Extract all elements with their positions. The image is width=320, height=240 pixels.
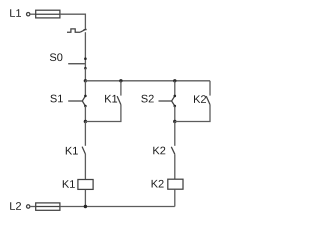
wire [30, 206, 36, 208]
label S2 [141, 95, 153, 103]
node [173, 79, 176, 82]
pushbutton S2 (make contact) [159, 95, 177, 108]
label L1 [10, 9, 21, 17]
node [84, 120, 87, 123]
wire [84, 81, 86, 96]
node [84, 205, 87, 208]
wire [174, 106, 176, 122]
contact K1 aux (make) [117, 96, 121, 105]
wire [175, 105, 210, 122]
wire K2 rail upper [209, 81, 211, 96]
wire [60, 14, 86, 29]
coil K1 [78, 180, 93, 190]
thermal overload contact F2 [67, 29, 87, 32]
contact K1 (make) [82, 147, 85, 154]
label K2 contact [153, 147, 165, 155]
wire [30, 13, 36, 15]
node [84, 79, 87, 82]
label L2 [10, 202, 21, 210]
wire [84, 106, 86, 122]
label K1 [105, 95, 117, 103]
terminal L1 [27, 13, 30, 16]
wire [85, 105, 121, 122]
wire [174, 122, 176, 146]
wire K1 rail upper [120, 81, 122, 96]
label K2 coil [152, 180, 164, 188]
fuse F1 [36, 10, 60, 18]
wire S2 rail upper [174, 81, 176, 96]
label K1 coil [63, 180, 75, 188]
wire bottom rail [60, 206, 175, 208]
wire [174, 154, 176, 179]
wire [84, 32, 86, 59]
fuse F3 [36, 203, 60, 210]
node [119, 79, 122, 82]
label K1 contact [66, 147, 78, 155]
label S1 [50, 95, 62, 103]
pushbutton S1 (make contact) [68, 95, 87, 108]
wire [84, 190, 86, 207]
node [173, 120, 176, 123]
wire [84, 68, 86, 81]
wire [174, 190, 176, 207]
contact K2 aux (make) [206, 96, 210, 105]
contact K2 (make) [171, 147, 175, 154]
label K2 [194, 95, 206, 103]
wire [84, 154, 86, 179]
wire [84, 122, 86, 146]
wire top branch [85, 80, 210, 82]
coil K2 [168, 179, 183, 189]
pushbutton S0 (break contact) [68, 57, 87, 69]
label S0 [50, 53, 63, 61]
terminal L2 [27, 205, 30, 208]
